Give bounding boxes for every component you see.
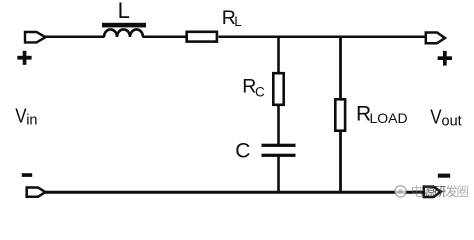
svg-text:C: C [255, 85, 265, 100]
label C [235, 139, 250, 162]
watermark text [411, 184, 470, 199]
polarity - (input side) [22, 173, 32, 177]
label L [118, 0, 130, 23]
label R_LOAD [356, 103, 408, 127]
svg-text:LOAD: LOAD [370, 110, 408, 126]
wire top rail: input terminal to inductor [45, 36, 105, 39]
node A: junction of R_C branch with top rail [277, 36, 280, 73]
wire top rail: R_L to output terminal (through nodes) [219, 36, 426, 39]
wire: capacitor C to bottom rail [277, 156, 280, 192]
polarity - (output side) [438, 174, 450, 178]
wire: R_C to capacitor C [277, 104, 280, 145]
label R_C [242, 76, 265, 100]
svg-text:圈: 圈 [457, 185, 470, 199]
svg-text:C: C [235, 139, 250, 162]
capacitor C (two plates) [262, 144, 296, 157]
terminal: output + (top right) [426, 33, 445, 44]
terminal: output - (bottom right) [424, 187, 441, 197]
node B: junction of R_LOAD branch with top rail [339, 36, 342, 99]
svg-text:V: V [430, 105, 442, 128]
polarity + (output side) [438, 51, 452, 66]
wire bottom rail [45, 191, 423, 194]
svg-text:in: in [26, 112, 37, 128]
resistor R_C (vertical box) [273, 73, 283, 105]
svg-text:L: L [234, 14, 242, 29]
wire top rail: inductor to R_L [143, 36, 188, 39]
watermark logo circle [395, 186, 406, 197]
terminal: input + (top left) [25, 32, 46, 42]
svg-text:L: L [118, 0, 130, 23]
label R_L [222, 7, 242, 29]
terminal: input - (bottom left) [27, 188, 46, 197]
resistor R_L (series box) [187, 32, 217, 42]
svg-text:out: out [442, 113, 462, 129]
inductor L (coil with core bar) [102, 23, 146, 37]
label v_out [430, 105, 461, 129]
label v_in [15, 104, 37, 128]
wire: R_LOAD to bottom rail [339, 129, 342, 192]
resistor R_LOAD (vertical box) [335, 99, 345, 130]
polarity + (input side) [17, 51, 31, 65]
